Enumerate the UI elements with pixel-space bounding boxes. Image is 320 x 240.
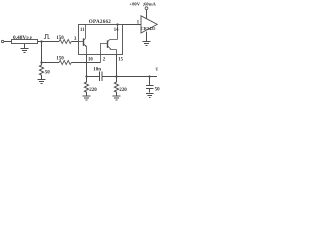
transistor Q1 collector	[84, 25, 86, 41]
svg-text:50: 50	[155, 87, 160, 92]
ground (C2)	[146, 94, 154, 98]
svg-text:U: U	[156, 68, 159, 72]
svg-text:10n: 10n	[93, 68, 101, 73]
svg-text:OPA2662: OPA2662	[89, 19, 112, 25]
ground (R3)	[38, 80, 46, 84]
transistor Q1 bar	[83, 38, 85, 46]
resistor R3 50 vertical	[39, 63, 43, 80]
capacitor C2 plates	[146, 86, 154, 89]
transistor Q1 base wire	[79, 41, 84, 43]
node pin 14 on rail	[116, 23, 118, 25]
rail wire box to buffer	[123, 24, 142, 26]
ground (coax shield)	[24, 44, 26, 49]
node B	[40, 61, 42, 63]
output row wire	[117, 76, 158, 78]
resistor R4 220 (left)	[84, 77, 88, 96]
resistor R1 150 (top)	[59, 39, 71, 43]
node A	[40, 40, 42, 42]
svg-text:CR3425: CR3425	[141, 26, 156, 31]
svg-text:2: 2	[103, 57, 106, 62]
svg-text:14: 14	[114, 28, 119, 33]
op-amp U1 OPA2662 box	[79, 25, 123, 55]
svg-text:15: 15	[118, 57, 123, 62]
svg-text:150: 150	[56, 56, 64, 61]
capacitor C1 10n leads	[87, 76, 117, 78]
svg-text:50: 50	[45, 71, 51, 76]
capacitor C1 plates	[100, 72, 103, 82]
resistor R2 150 (lower)	[59, 60, 71, 64]
pulse symbol	[44, 35, 50, 39]
ground (R4)	[83, 96, 91, 100]
wire input to coax	[4, 41, 12, 43]
node E2	[115, 75, 117, 77]
coax line box	[12, 40, 38, 44]
wire node B to R2	[42, 62, 60, 64]
transistor Q2 base wire	[101, 44, 108, 63]
wire R2 to pin 2 riser	[71, 62, 100, 64]
ground (R5)	[113, 96, 121, 100]
input terminal	[1, 40, 3, 42]
transistor Q2 collector	[108, 25, 118, 43]
ground (buffer)	[146, 32, 148, 41]
supply terminal	[145, 7, 148, 10]
node E1	[85, 75, 87, 77]
svg-text:220: 220	[89, 88, 97, 93]
transistor Q2 bar	[107, 40, 109, 48]
transistor Q1 emitter	[84, 44, 87, 55]
wire node A to node B	[41, 42, 43, 63]
svg-text:10: 10	[88, 57, 93, 62]
svg-text:150: 150	[56, 36, 64, 41]
transistor Q2 emitter	[108, 46, 117, 55]
pin 10 wire	[86, 55, 88, 77]
svg-text:0.48VP-P: 0.48VP-P	[13, 35, 33, 41]
svg-text:220: 220	[119, 88, 127, 93]
capacitor C2 load lead	[149, 77, 151, 86]
resistor R5 220 (right)	[114, 77, 118, 96]
pin 15 wire	[116, 55, 118, 77]
buffer U2 triangle	[141, 16, 157, 33]
svg-text:;60mA: ;60mA	[143, 1, 157, 6]
svg-text:+80V: +80V	[130, 1, 141, 6]
svg-text:11: 11	[80, 28, 85, 33]
node load cap	[148, 75, 150, 77]
supply wire	[146, 10, 148, 19]
wire coax to R150 top	[38, 41, 60, 43]
wire R1 to pin 3	[71, 41, 78, 43]
